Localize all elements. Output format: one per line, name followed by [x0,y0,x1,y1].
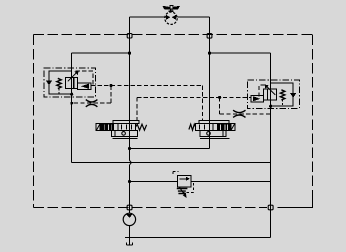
restrictor left [86,100,98,107]
restrictor right [233,110,245,117]
directional valve DV1 top plate [113,121,139,124]
wire top header line [130,16,210,18]
junction dot [128,147,131,150]
wire DV2 outlet down and left [130,139,210,149]
pilot dashed corner [76,71,94,85]
overcenter valve V1 enclosure (dash-dot) [44,68,95,97]
pilot line A (dashed) [91,86,202,121]
drain arrow [290,93,296,98]
spring [280,90,284,100]
pilot drop to valve DV1 [136,97,138,120]
junction dot [269,105,272,108]
pilot line B (dashed) [137,96,251,98]
junction dot [109,84,112,87]
adjustment arrow [266,86,275,95]
adjustment arrow [68,72,77,81]
directional valve DV1 lower body [112,130,138,136]
directional valve DV1 bottom line [112,137,137,139]
junction dot [128,52,131,55]
wire right outer vertical [270,53,272,237]
overcenter valve V2 spring loop [271,83,294,106]
hop jog [130,160,132,165]
junction port bottom-right [268,205,273,210]
pilot branch to restrictor left [72,86,111,104]
directional valve DV2 top plate [199,121,229,124]
wire right inner vertical (main line B) [209,17,211,148]
junction dot [70,102,73,105]
directional valve DV2 bottom line [200,138,230,140]
directional valve DV2 spring [189,124,196,130]
relief valve pilot dashes [173,172,179,176]
spring drain dashed [58,89,60,95]
wire branch to right column [210,52,271,54]
junction port top-right [207,34,212,39]
wire branch to left overcenter valve [72,52,130,54]
overcenter valve V1 spring loop [49,71,72,94]
enclosure outer dashed boundary [33,35,312,208]
wire left inner vertical (main line A) [129,17,131,213]
relief valve spring [177,189,188,194]
directional valve DV1 arrows position 2 [122,125,132,130]
directional valve DV1 pilot actuator [96,124,100,131]
overcenter valve V2 pilot piston [251,96,264,103]
relief valve RV body [178,176,191,187]
motor shaft symbol [162,5,180,12]
directional valve DV1 spring [136,124,147,130]
wire bottom-right solid corner [278,201,313,208]
junction port bottom-left [127,205,132,210]
directional valve DV2 pilot actuator [231,124,235,131]
tank symbol [126,238,132,246]
pilot branch to restrictor right [220,97,271,113]
wire cross line with hop [72,162,271,164]
junction port top-left [127,34,132,39]
wire relief line [130,181,271,183]
wire bottom return line [125,237,271,239]
directional valve DV1 envelope [100,124,135,131]
directional valve DV2 arrows position 1 [200,125,210,130]
drain arrow [46,81,52,86]
motor M1 [165,12,177,24]
spring drain dashed [282,100,284,107]
directional valve DV2 envelope [196,124,231,131]
pilot dashed corner [259,85,265,98]
junction dot [70,93,73,96]
wire left valve vertical [71,53,73,162]
overcenter valve V1 pilot piston [78,83,91,90]
pump P1 [123,213,135,225]
junction dot [218,96,221,99]
overcenter valve V2 body [264,89,277,100]
overcenter valve V2 enclosure (dash-dot) [247,80,299,108]
relief valve adjustment arrow [179,187,186,198]
overcenter valve V1 body [65,78,77,89]
directional valve DV2 arrows position 2 [217,124,230,130]
junction dot [208,52,211,55]
directional valve DV1 arrows position 1 [101,124,114,130]
relief valve arrow [180,177,190,181]
directional valve DV2 lower body [200,130,226,136]
relief valve pilot right dashes [183,183,194,192]
spring [57,78,61,88]
junction dot [128,180,131,183]
wire pump to tank [128,226,130,238]
